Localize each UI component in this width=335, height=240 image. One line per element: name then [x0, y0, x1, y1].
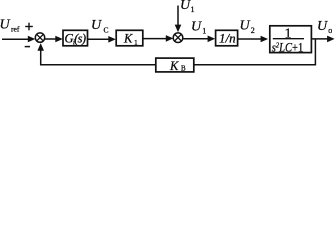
node U_ref [0, 18, 20, 34]
node U_o [317, 19, 332, 35]
svg-text:K: K [123, 31, 133, 45]
svg-text:U: U [91, 18, 102, 33]
wire U_1 into S2 from top [175, 6, 182, 33]
svg-text:1: 1 [134, 38, 138, 47]
svg-text:K: K [169, 59, 179, 73]
block G1: current regulator G_i(s) [63, 30, 88, 46]
block K1: PWM gain [116, 30, 143, 47]
summing junction S1 [35, 33, 44, 42]
plus sign at S1 [25, 23, 33, 31]
block 1/n: transformer ratio [216, 30, 238, 46]
svg-text:o: o [328, 26, 332, 35]
svg-text:1: 1 [202, 26, 206, 35]
wire output to U_o [312, 36, 335, 43]
summing junction S2 [173, 33, 183, 43]
node U_2 [240, 18, 255, 35]
wire 1/n to LC filter block [238, 36, 268, 43]
svg-text:1: 1 [191, 5, 195, 14]
wire S1 to block G1 [45, 36, 63, 43]
block KB: voltage feedback coefficient [156, 58, 194, 73]
svg-text:1/n: 1/n [219, 31, 236, 46]
fraction bar [273, 38, 304, 40]
node U_1 disturbance input [180, 0, 195, 14]
wire feedback tap from output node [314, 39, 316, 65]
svg-text:U: U [0, 18, 11, 33]
wire feedback riser into S1 [37, 43, 44, 65]
svg-text:C: C [104, 26, 109, 35]
minus sign at S1 [25, 46, 30, 48]
svg-text:U: U [240, 18, 251, 33]
svg-text:U: U [317, 19, 328, 34]
svg-text:U: U [191, 19, 202, 34]
wire K1 to summing junction S2 [144, 35, 174, 42]
svg-text:B: B [181, 65, 186, 73]
svg-text:Gi(s): Gi(s) [65, 31, 87, 46]
svg-text:U: U [180, 0, 191, 13]
wire feedback bottom left segment [40, 64, 155, 66]
svg-text:ref: ref [11, 25, 20, 34]
node U_C [91, 18, 109, 35]
wire feedback bottom right segment [194, 64, 316, 66]
wire S2 to block 1/n [183, 36, 216, 43]
block LC filter: transfer function 1/(s^2LC+1) [270, 26, 312, 55]
wire G1 to K1 [88, 36, 116, 43]
wire input to summing junction S1 [2, 36, 35, 43]
svg-text:2: 2 [251, 26, 255, 35]
node U_1 after S2 [191, 19, 206, 35]
